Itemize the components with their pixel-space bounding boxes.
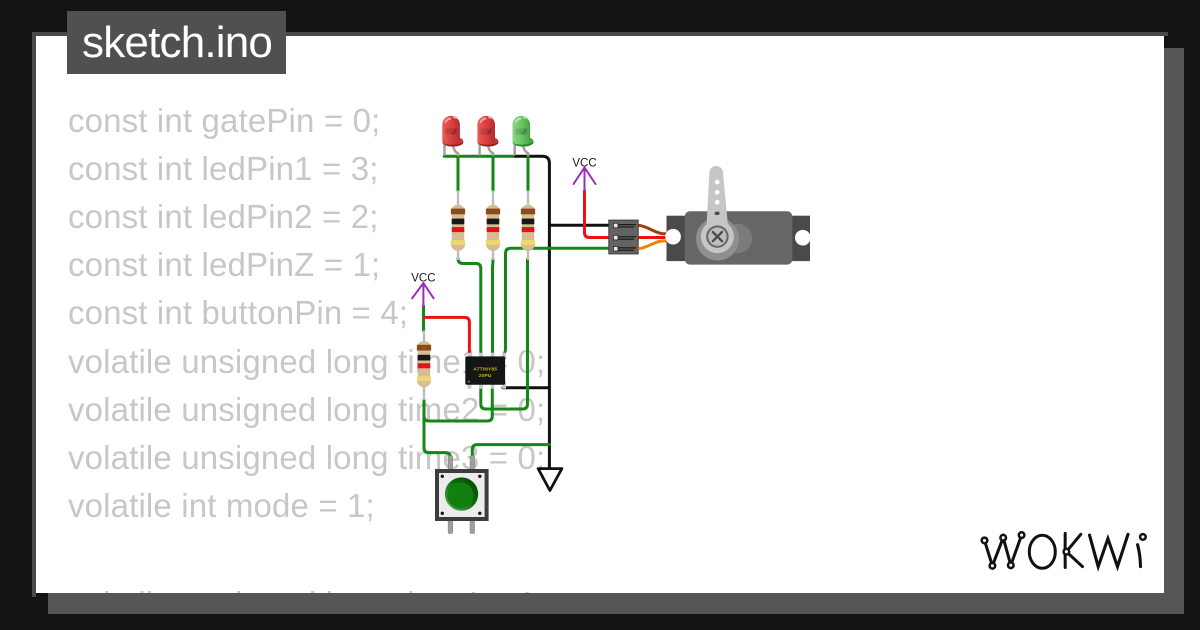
wire green R2 to chip pin3 xyxy=(491,259,495,352)
svg-text:20PU: 20PU xyxy=(479,373,492,379)
wire green R1 to chip pin2 xyxy=(458,259,481,353)
servo M1 body xyxy=(665,166,810,265)
logo W1 xyxy=(985,535,1022,566)
wokwi logo xyxy=(975,520,1160,580)
resistor R4 xyxy=(417,331,431,401)
pushbutton SW1 pins xyxy=(448,456,474,534)
wire black chip to gnd bus xyxy=(503,386,549,389)
wire green R4 to chip pin3 bottom xyxy=(424,389,492,421)
wire green R3 to chip pin2 bottom xyxy=(481,259,528,409)
wire green led3 anode xyxy=(527,156,530,190)
wire green vcc1 stub xyxy=(422,306,425,331)
svg-text:ATTINY85: ATTINY85 xyxy=(473,367,497,373)
chip U1 ATTINY85 xyxy=(465,353,506,389)
wire red vcc1 to chip pin1 xyxy=(425,317,469,352)
resistor R3 xyxy=(521,191,535,261)
wire green R4 to button xyxy=(424,400,450,458)
power symbol VCC1 xyxy=(411,273,435,307)
wire green led1 anode xyxy=(457,156,460,190)
logo K xyxy=(1065,533,1082,567)
servo M1 connector J1 xyxy=(609,220,638,254)
wire green button to gnd bus xyxy=(472,445,549,457)
wire black LED3 to down xyxy=(516,156,550,468)
wire red vcc2 to servo xyxy=(585,191,609,238)
wire black servo gnd row xyxy=(549,224,608,227)
logo O xyxy=(1029,535,1055,568)
logo i xyxy=(1138,545,1141,567)
wire green servo signal xyxy=(505,248,609,352)
servo M1 lead wires (brown/red/orange) xyxy=(638,225,688,248)
ground symbol xyxy=(538,469,562,491)
LED D3 green xyxy=(513,116,534,156)
power symbol VCC2 xyxy=(572,158,596,192)
resistor R1 xyxy=(451,191,465,261)
LED D2 red xyxy=(477,116,498,156)
pushbutton SW1 body xyxy=(437,471,487,519)
resistor R2 xyxy=(486,191,500,261)
wire green led2 anode xyxy=(492,156,495,190)
page border left xyxy=(32,32,36,598)
sketch.ino tab xyxy=(67,11,286,74)
logo W2 xyxy=(1090,534,1129,566)
LED D1 red xyxy=(442,116,463,156)
page border top xyxy=(32,32,1169,36)
wire green LED common horizontal xyxy=(444,155,515,158)
WIRES xyxy=(424,156,609,468)
